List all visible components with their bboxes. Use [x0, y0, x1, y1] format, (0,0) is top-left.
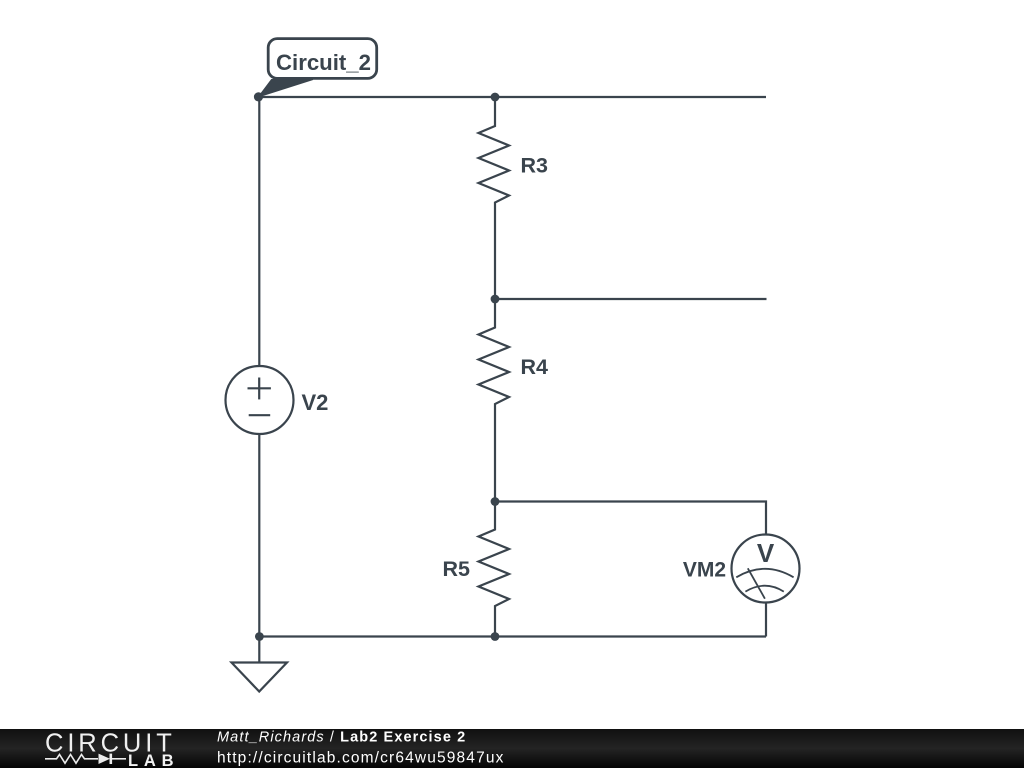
node junction bottom mid — [491, 632, 500, 641]
node junction top — [491, 93, 500, 102]
svg-text:V: V — [757, 538, 775, 568]
label V2 — [302, 390, 329, 415]
wire to voltmeter top — [495, 502, 766, 536]
footer url line — [217, 750, 505, 767]
voltmeter VM2 — [732, 535, 800, 603]
node junction lower — [491, 497, 500, 506]
resistor R5 — [479, 502, 510, 637]
svg-text:Matt_Richards / Lab2 Exercise: Matt_Richards / Lab2 Exercise 2 — [217, 730, 466, 746]
resistor R4 — [479, 299, 510, 502]
node junction bottom-left — [255, 632, 264, 641]
label R5 — [443, 557, 471, 581]
svg-text:LAB: LAB — [128, 752, 179, 768]
node junction mid — [491, 295, 500, 304]
wire bottom horizontal — [259, 635, 766, 637]
footer title line — [217, 730, 466, 746]
label R3 — [521, 153, 549, 177]
wire voltmeter bottom — [765, 603, 767, 637]
node junction top-left — [254, 92, 263, 101]
footer bar — [0, 729, 1024, 768]
label VM2 — [683, 559, 726, 582]
resistor R3 — [479, 97, 510, 299]
svg-text:R3: R3 — [521, 153, 549, 177]
wire mid horizontal — [495, 298, 767, 300]
svg-text:V2: V2 — [302, 390, 329, 415]
svg-text:VM2: VM2 — [683, 559, 726, 582]
logo LAB text — [128, 752, 179, 768]
logo CIRCUIT text — [45, 730, 176, 758]
svg-text:http://circuitlab.com/cr64wu59: http://circuitlab.com/cr64wu59847ux — [217, 750, 505, 767]
wire left vertical — [258, 97, 260, 367]
wire top horizontal — [259, 96, 767, 98]
svg-text:Circuit_2: Circuit_2 — [276, 50, 371, 75]
label R4 — [521, 355, 549, 379]
svg-text:R4: R4 — [521, 355, 549, 379]
logo resistor-diode glyph — [45, 754, 126, 764]
svg-text:R5: R5 — [443, 557, 471, 581]
ground — [232, 637, 288, 692]
voltage source V2 — [226, 366, 294, 434]
wire V2 bottom — [258, 434, 260, 637]
annotation callout Circuit_2 — [258, 39, 376, 97]
